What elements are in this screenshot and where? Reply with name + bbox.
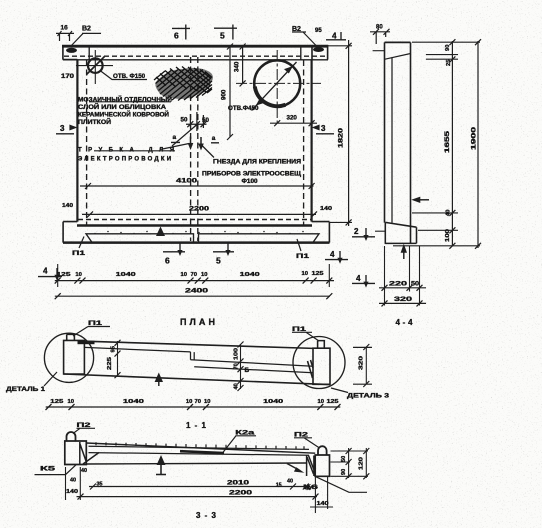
svg-text:10: 10 <box>181 272 187 278</box>
sec33 right inner dim 50 90 <box>341 448 352 479</box>
sec33 label P2 left <box>73 422 95 434</box>
svg-text:ОТВ. Ф150: ОТВ. Ф150 <box>113 73 146 80</box>
dim 1820 extension top <box>328 45 352 47</box>
sec11 right dim 320 <box>353 344 372 387</box>
sec44 bottom dim extensions <box>385 246 420 306</box>
embedded plate B2 left <box>66 48 77 53</box>
svg-text:40: 40 <box>446 210 452 216</box>
svg-text:340: 340 <box>234 61 241 72</box>
sec11 detail circle 1 <box>44 333 93 382</box>
svg-text:2400: 2400 <box>185 288 209 295</box>
sec33 label P2 right <box>294 432 320 449</box>
dim 900 vertical <box>221 44 234 141</box>
plan top inner line <box>63 59 328 61</box>
sec44 dim label 1655 <box>444 130 451 153</box>
sec11 bottom line <box>64 374 330 385</box>
svg-text:4: 4 <box>330 250 335 259</box>
sec11 dim row line <box>46 406 341 408</box>
bottom foot left trapezoid <box>86 234 194 243</box>
svg-text:1040: 1040 <box>240 272 260 278</box>
sec44 dim label 25 <box>446 59 452 66</box>
svg-text:3: 3 <box>60 124 65 133</box>
plan top-left corner step <box>63 45 78 60</box>
tube leaders <box>160 125 214 158</box>
sec11 label P1 right <box>292 326 319 341</box>
sec44 bottom foot <box>385 222 417 243</box>
sec44 dim row 320 <box>379 296 426 306</box>
svg-text:900: 900 <box>221 89 228 100</box>
plan dim row1 extension verticals <box>58 264 330 287</box>
svg-text:220: 220 <box>389 281 408 288</box>
dim 4100 internal <box>80 178 315 190</box>
svg-text:В2: В2 <box>82 26 91 33</box>
svg-text:4-4: 4-4 <box>396 318 414 327</box>
svg-text:10: 10 <box>302 271 308 277</box>
sec44 dim row 220 50 <box>379 281 426 291</box>
svg-text:10: 10 <box>204 399 210 405</box>
svg-text:2200: 2200 <box>189 206 210 213</box>
label P1 bottom-left with leader <box>72 237 86 258</box>
plan bottom outer edge <box>63 241 330 244</box>
sec44 dim label 40 <box>446 210 452 216</box>
hole 450 centerlines <box>236 50 321 123</box>
svg-text:6: 6 <box>165 256 170 266</box>
svg-text:40: 40 <box>305 486 311 492</box>
dim 340 vertical <box>234 44 246 87</box>
note underline mosaic <box>89 101 171 103</box>
svg-text:5: 5 <box>216 256 221 266</box>
sec33 web rebar dots <box>96 442 304 449</box>
svg-text:Ф100: Ф100 <box>242 179 259 185</box>
section mark 3 right <box>312 124 334 134</box>
sec33 web bottom line <box>86 463 306 464</box>
svg-text:10: 10 <box>68 399 74 405</box>
svg-text:4: 4 <box>356 274 361 283</box>
plan top-right corner step <box>312 45 328 60</box>
svg-text:П1: П1 <box>296 253 310 260</box>
plan dim row2 ticks <box>55 293 333 299</box>
svg-text:120: 120 <box>359 457 365 470</box>
section mark 4 top-right <box>326 32 346 41</box>
section mark 3 left <box>56 124 77 134</box>
sec11 up arrow <box>155 373 163 387</box>
sec33 web top line <box>86 443 315 453</box>
svg-text:70: 70 <box>234 363 240 369</box>
plan dim row1 line <box>55 280 334 282</box>
sec33 label K2a <box>223 430 256 453</box>
plan bottom thick band <box>77 224 312 227</box>
svg-text:3-3: 3-3 <box>196 511 217 520</box>
plan inner dashed left <box>86 60 88 226</box>
sec11 recess line B <box>194 367 313 373</box>
svg-text:40: 40 <box>70 478 76 484</box>
note underline tube <box>94 150 175 152</box>
label 95 top-right <box>315 28 322 34</box>
svg-text:25: 25 <box>446 59 452 66</box>
sec11 label detail 1 <box>6 372 57 393</box>
hole 450 circle <box>254 60 300 106</box>
sec33 web third line <box>89 453 310 456</box>
sec33 label K6 with leader <box>303 477 367 493</box>
svg-text:100: 100 <box>445 229 451 242</box>
sec44 dim label 100 <box>445 229 451 242</box>
svg-text:К5: К5 <box>40 466 56 473</box>
svg-text:П1: П1 <box>72 250 86 257</box>
sec33 K2a thick segment <box>180 451 224 453</box>
sec11 dim row ticks <box>46 404 341 410</box>
svg-text:5: 5 <box>220 31 225 41</box>
svg-text:16: 16 <box>61 25 69 32</box>
svg-text:2200: 2200 <box>229 491 253 497</box>
svg-text:70: 70 <box>195 399 201 405</box>
svg-text:Б: Б <box>245 367 250 374</box>
sec44 inner dim line <box>444 39 455 249</box>
sec44 profile outline <box>373 42 417 243</box>
sec44 left arrow <box>411 197 429 203</box>
svg-text:2: 2 <box>354 227 359 236</box>
svg-text:ГНЕЗДА ДЛЯ КРЕПЛЕНИЯ: ГНЕЗДА ДЛЯ КРЕПЛЕНИЯ <box>213 160 301 166</box>
svg-text:320: 320 <box>287 115 298 122</box>
plan center rib dashed pair <box>191 57 198 241</box>
svg-text:125: 125 <box>57 272 72 278</box>
svg-text:70: 70 <box>191 272 197 278</box>
sec33 bottom left dims <box>66 467 103 500</box>
feet speckle dots <box>94 231 304 235</box>
sec11 mid dim 100 70 40 <box>234 342 244 392</box>
svg-text:1-1: 1-1 <box>186 421 207 430</box>
svg-text:170: 170 <box>61 74 75 80</box>
svg-text:ПРИБОРОВ ЭЛЕКТРООСВЕЩ: ПРИБОРОВ ЭЛЕКТРООСВЕЩ <box>202 172 302 178</box>
sec33 web second line <box>89 446 310 449</box>
section mark 5 top <box>214 25 237 41</box>
label 16 top-left with ticks <box>56 25 74 42</box>
sec44 right dim extension lines <box>393 42 480 246</box>
plan top edge <box>62 45 328 48</box>
sec33 label K5 with leader <box>35 465 77 475</box>
plan bottom-right corner step <box>312 222 330 243</box>
svg-text:СЛОЙ ИЛИ ОБЛИЦОВКА: СЛОЙ ИЛИ ОБЛИЦОВКА <box>78 103 167 111</box>
sec44 inner vertical <box>391 58 393 223</box>
hole 150 circle with slash <box>76 50 113 84</box>
sec11 P1 plate dark <box>78 341 95 344</box>
svg-text:125: 125 <box>327 399 340 405</box>
label OTV f150 with leader <box>100 71 147 81</box>
sec44 dim label 90 <box>445 45 451 51</box>
sec11 left dim 95 225 <box>107 340 121 378</box>
dim 1820 line <box>338 40 352 226</box>
plan dim row1 labels <box>57 271 325 278</box>
svg-text:КЕРАМИЧЕСКОЙ КОВРОВОЙ: КЕРАМИЧЕСКОЙ КОВРОВОЙ <box>78 111 169 119</box>
plan top hidden dashed line <box>64 55 327 57</box>
svg-text:ДЕТАЛЬ 1: ДЕТАЛЬ 1 <box>6 387 46 393</box>
mosaic finish hatch blob <box>154 67 213 101</box>
svg-text:а: а <box>173 134 177 141</box>
sec33 right outer dim 120 <box>359 448 370 479</box>
section mark 2 right <box>352 227 385 241</box>
hole 450 diameter arrow <box>252 62 297 111</box>
bottom foot right trapezoid <box>199 234 320 243</box>
embedded plate B2 right <box>313 47 324 52</box>
svg-text:2010: 2010 <box>227 481 250 487</box>
plan corner seam right <box>300 46 302 60</box>
sec44 dim 80 <box>370 25 390 44</box>
svg-text:1655: 1655 <box>444 130 451 153</box>
svg-text:90: 90 <box>341 469 347 475</box>
section mark 6 bottom <box>163 244 185 266</box>
sec11 detail circle 3 <box>293 337 345 389</box>
sec11 bar top line <box>84 341 313 348</box>
sec11 recess line A <box>191 360 314 367</box>
sec11 dim row labels <box>50 399 339 405</box>
svg-text:80: 80 <box>376 25 383 31</box>
sec11 right lifting nub <box>318 341 325 349</box>
svg-text:125: 125 <box>312 271 325 277</box>
svg-text:225: 225 <box>107 356 113 370</box>
dim 320 horizontal below circle <box>270 115 317 127</box>
plan left edge <box>76 60 78 222</box>
svg-text:10: 10 <box>201 272 207 278</box>
svg-text:10: 10 <box>318 399 324 405</box>
sec11 label detail 3 <box>331 388 390 400</box>
sec11 bar second line <box>84 347 190 352</box>
sec33 left block hatch <box>80 442 99 464</box>
svg-text:125: 125 <box>50 399 64 405</box>
svg-text:ЭЛЕКТРОПРОВОДКИ: ЭЛЕКТРОПРОВОДКИ <box>78 157 171 163</box>
sec33 dim row 2200 <box>77 491 319 500</box>
plan bottom-left corner step <box>63 222 77 243</box>
svg-text:50: 50 <box>411 281 420 288</box>
svg-text:140: 140 <box>66 489 78 495</box>
section mark 5 bottom <box>213 244 234 266</box>
svg-text:1040: 1040 <box>116 272 136 278</box>
tube node vertical ticks <box>190 112 203 131</box>
svg-text:50: 50 <box>341 456 347 462</box>
svg-text:а: а <box>212 135 216 142</box>
sec33 right dim extensions <box>331 451 369 476</box>
svg-text:40: 40 <box>287 479 293 485</box>
svg-text:4: 4 <box>43 267 48 276</box>
label P1 bottom-right with leader <box>296 239 310 260</box>
label B2 right with leader <box>292 26 317 47</box>
sec11 left lifting nub <box>67 334 75 340</box>
sec44 top bevel <box>385 54 410 60</box>
sec33 left end block <box>65 441 87 465</box>
svg-text:40: 40 <box>234 383 240 389</box>
sec11 middle step <box>191 352 195 360</box>
svg-text:6: 6 <box>174 31 179 41</box>
svg-text:140: 140 <box>317 501 329 507</box>
svg-text:320: 320 <box>394 296 413 303</box>
sec11 right inner corner hatch <box>308 360 314 378</box>
label OTV f450 <box>228 105 259 112</box>
svg-text:95: 95 <box>315 28 322 34</box>
section mark 4 bottom-left <box>38 267 62 281</box>
sec33 dim row 2010 <box>89 479 311 493</box>
svg-text:ПЛИТКОЙ: ПЛИТКОЙ <box>78 118 111 126</box>
svg-text:140: 140 <box>62 203 73 209</box>
sec33 right diagonal arrow <box>287 464 304 473</box>
sec33 bottom right dims <box>310 477 333 513</box>
plan corner seam left <box>88 46 90 60</box>
plan right edge <box>311 60 313 222</box>
svg-text:140: 140 <box>320 206 332 212</box>
svg-text:3: 3 <box>321 124 326 133</box>
sec33 right block hatch <box>307 456 314 477</box>
dim 1820 extension bottom <box>330 221 352 223</box>
plan inner dashed right <box>303 60 305 226</box>
svg-text:4100: 4100 <box>176 178 198 185</box>
svg-text:10: 10 <box>186 399 192 405</box>
sec11 label P1 left <box>73 320 110 336</box>
svg-text:10: 10 <box>75 272 81 278</box>
sec44 outer dim line 1900 <box>471 39 482 249</box>
section mark 6 top <box>172 25 190 41</box>
label B2 left with leader <box>70 26 101 48</box>
sec11 right end block <box>313 341 330 385</box>
plan dim row1 ticks <box>55 278 333 284</box>
tube node dim 50 50 <box>181 116 210 127</box>
plan dim row2 line <box>55 295 330 297</box>
sec44 up arrow <box>401 244 407 259</box>
dim 2200 internal <box>82 206 317 218</box>
sec33 left lifting nub <box>67 432 76 441</box>
svg-text:1040: 1040 <box>263 399 283 405</box>
svg-text:100: 100 <box>234 348 240 360</box>
svg-text:320: 320 <box>359 356 365 370</box>
section marks a-a at tube <box>171 134 219 150</box>
sec33 right end block <box>315 455 329 476</box>
plan bottom up arrow <box>156 227 165 237</box>
section mark 4 bottom-right outer <box>352 274 375 288</box>
sec33 right lifting nub <box>318 446 327 455</box>
svg-text:90: 90 <box>445 45 451 51</box>
svg-text:ОТВ.Ф450: ОТВ.Ф450 <box>228 105 259 112</box>
svg-text:15: 15 <box>276 483 282 489</box>
sec33 up arrow <box>156 455 166 475</box>
svg-text:1900: 1900 <box>471 126 478 150</box>
svg-text:40: 40 <box>81 468 87 474</box>
svg-text:50: 50 <box>181 116 188 123</box>
plan bottom hidden dashed line <box>78 219 311 221</box>
section mark 4 bottom-right inner <box>325 250 348 264</box>
svg-text:ДЕТАЛЬ 3: ДЕТАЛЬ 3 <box>347 394 390 400</box>
svg-text:95: 95 <box>111 345 117 352</box>
svg-text:1820: 1820 <box>338 127 345 148</box>
sec11 left end block <box>64 334 85 374</box>
svg-text:1040: 1040 <box>123 399 144 405</box>
